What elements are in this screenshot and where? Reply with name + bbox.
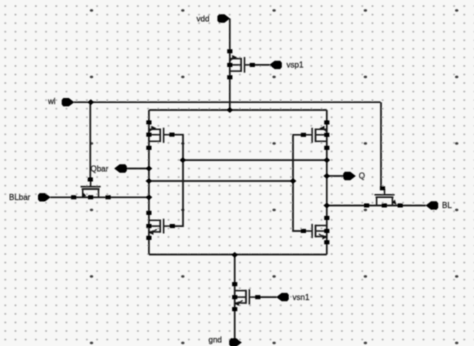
wire cross Qbar to right gates <box>149 180 293 182</box>
svg-text:vsp1: vsp1 <box>287 61 304 70</box>
left access squares <box>88 177 93 181</box>
transistor right inverter PMOS <box>316 128 327 130</box>
wire BLbar horizontal <box>50 196 149 198</box>
pin Q <box>343 172 356 180</box>
right access arrow <box>392 200 397 205</box>
wire vsn1 gate <box>258 296 277 298</box>
right NMOS squares <box>324 216 329 220</box>
wire wl horizontal <box>74 101 381 103</box>
pin gnd <box>229 338 242 346</box>
right access squares <box>380 186 385 190</box>
svg-text:vsn1: vsn1 <box>293 293 310 302</box>
pin vsn1 <box>276 293 289 301</box>
transistor right inverter NMOS <box>316 225 327 227</box>
wire cross Q to left gates <box>183 159 327 161</box>
pin Qbar <box>114 164 127 172</box>
wire node Qbar stub <box>127 168 149 170</box>
svg-text:BL: BL <box>442 201 452 210</box>
svg-text:wl: wl <box>47 97 56 106</box>
wire vsp1 gate <box>252 64 269 66</box>
junction cross wire left <box>146 178 153 184</box>
right gate line <box>293 135 303 231</box>
junction left gates cross <box>179 157 186 163</box>
left PMOS squares <box>146 120 151 124</box>
pin BLbar <box>38 193 51 201</box>
junction right gates cross <box>290 178 297 184</box>
junction BL at edge <box>323 203 330 209</box>
inverter box top rail <box>149 109 327 111</box>
wire wl drop left <box>89 102 91 179</box>
pin squares vdd branch <box>227 49 232 53</box>
transistor left inverter NMOS <box>149 219 160 221</box>
transistor left access NMOS <box>82 188 100 190</box>
left access arrow <box>81 193 86 198</box>
left NMOS squares <box>146 211 151 215</box>
junction vdd to rail <box>226 107 233 113</box>
svg-text:vdd: vdd <box>197 15 210 24</box>
junction Qbar stub <box>146 166 153 172</box>
wire BL horizontal <box>327 205 426 207</box>
inverter box bottom rail <box>149 254 327 256</box>
pin vdd <box>217 14 230 22</box>
pin BL <box>426 201 439 209</box>
transistor left inverter PMOS <box>149 128 160 130</box>
svg-text:Qbar: Qbar <box>91 164 109 173</box>
wire wl drop right <box>380 102 382 188</box>
major grid dots <box>90 9 93 12</box>
wire node Q stub <box>327 175 345 177</box>
svg-text:Q: Q <box>359 172 365 181</box>
wire gnd vertical <box>234 255 236 341</box>
transistor right access NMOS <box>376 196 394 198</box>
junction wl tee left <box>87 99 94 105</box>
junction Q stub <box>323 173 330 179</box>
transistor vsn1 pulldown NMOS <box>235 290 246 292</box>
junction gnd to rail <box>231 252 238 258</box>
wire vdd vertical <box>229 19 231 111</box>
right PMOS squares <box>324 120 329 124</box>
junction BLbar at edge <box>146 194 153 200</box>
pin wl <box>62 98 75 106</box>
svg-text:gnd: gnd <box>209 336 222 345</box>
inverter box left edge (Qbar node) <box>148 110 150 255</box>
junction cross at right edge <box>323 157 330 163</box>
svg-text:BLbar: BLbar <box>9 193 31 202</box>
pin vsp1 <box>269 61 282 69</box>
vsn1 squares <box>232 282 237 286</box>
left gate line <box>172 135 183 226</box>
transistor vsp1 pullup PMOS <box>230 58 241 60</box>
inverter box right edge (Q node) <box>326 110 328 255</box>
